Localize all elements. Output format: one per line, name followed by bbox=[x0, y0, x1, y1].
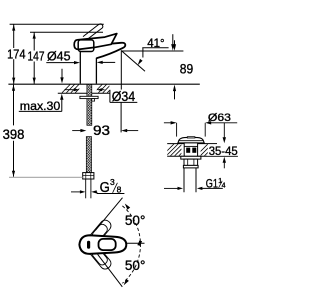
deck hatch right bbox=[94, 84, 115, 92]
drain nut bbox=[184, 159, 198, 165]
spout outlet horizontal ref line bbox=[121, 50, 183, 52]
svg-text:50°: 50° bbox=[125, 258, 145, 273]
top view rotated lever outline +50 bbox=[88, 218, 113, 245]
label G3/8 bbox=[97, 193, 125, 195]
angle radial line top bbox=[96, 198, 123, 231]
svg-text:Ø45: Ø45 bbox=[47, 49, 71, 64]
41 deg angle ray bbox=[122, 51, 145, 71]
drain deck hatch left bbox=[162, 144, 191, 156]
handle pivot dome bbox=[78, 40, 94, 52]
drain deck hatch right bbox=[196, 144, 225, 156]
svg-text:50°: 50° bbox=[125, 213, 145, 228]
deck slab bottom line bbox=[58, 92, 110, 94]
svg-text:89: 89 bbox=[180, 60, 194, 76]
G3/8 tail pipe bbox=[85, 179, 87, 198]
drain flange cap bbox=[178, 137, 204, 143]
dim 89 vertical bbox=[174, 40, 176, 44]
drain deck band bbox=[167, 143, 217, 145]
label 147 bbox=[27, 51, 46, 62]
drain body in hole bbox=[184, 143, 197, 156]
deck top line bbox=[8, 83, 199, 85]
max.30 upper down arrow bbox=[61, 69, 63, 80]
top view lever solid bbox=[79, 235, 126, 254]
G3/8 arrows bbox=[71, 191, 82, 193]
svg-text:G1: G1 bbox=[206, 176, 218, 190]
svg-text:8: 8 bbox=[117, 185, 122, 195]
deck hatch left bbox=[62, 84, 88, 92]
hose connector nut bbox=[83, 173, 94, 179]
svg-text:Ø34: Ø34 bbox=[112, 89, 136, 104]
dim 35-45 bbox=[223, 123, 225, 140]
svg-text:Ø63: Ø63 bbox=[208, 112, 231, 124]
mounting washer bbox=[80, 96, 98, 98]
arc end arrowheads bbox=[125, 204, 130, 210]
faucet spout bbox=[78, 43, 125, 59]
top view rotated lever outline -50 bbox=[88, 244, 113, 271]
drain washer under deck bbox=[181, 156, 201, 159]
label G1 1/4 bbox=[164, 187, 179, 189]
handle lever solid bbox=[74, 34, 117, 50]
svg-text:93: 93 bbox=[93, 122, 110, 138]
label D34 box bbox=[110, 90, 137, 103]
dim line 147 vertical bbox=[33, 32, 36, 84]
extension line 147 level bbox=[30, 31, 103, 33]
aerator vertical line to 93 dim bbox=[120, 50, 122, 89]
dim line 398 vertical bbox=[13, 85, 15, 126]
top view pivot slot bbox=[87, 241, 90, 249]
D63 extension lines bbox=[176, 123, 178, 137]
svg-text:4: 4 bbox=[222, 183, 226, 190]
41deg down arrow bbox=[172, 34, 174, 44]
angle radial line bottom bbox=[98, 254, 123, 286]
drain tailpipe bbox=[183, 168, 185, 192]
angle arc dashed bbox=[122, 206, 140, 283]
top view lever window bbox=[99, 239, 116, 250]
threaded shank braided bbox=[87, 84, 92, 125]
label 174 bbox=[6, 48, 27, 59]
reference plane gray line bbox=[9, 176, 83, 178]
svg-text:398: 398 bbox=[3, 126, 25, 142]
handle raised position outline bbox=[83, 24, 103, 39]
svg-text:G: G bbox=[100, 179, 110, 196]
extension line top (174 level) bbox=[10, 23, 104, 25]
svg-text:3: 3 bbox=[110, 177, 115, 187]
D45 right arrow bbox=[97, 61, 103, 64]
faucet body bbox=[79, 51, 81, 84]
svg-text:147: 147 bbox=[28, 48, 45, 63]
41 deg leader arrow bbox=[142, 48, 144, 58]
horizontal ref line from lever tip bbox=[127, 242, 145, 244]
D63 dim line bbox=[164, 122, 173, 124]
dim line 174 vertical bbox=[12, 24, 15, 84]
svg-text:max.30: max.30 bbox=[20, 99, 61, 113]
drain nut bottom ring bbox=[183, 165, 198, 168]
svg-text:174: 174 bbox=[7, 46, 25, 61]
dim 93 bbox=[72, 130, 83, 132]
flexible hose braided bbox=[86, 137, 91, 173]
D34 arrows in slab bbox=[64, 89, 75, 91]
